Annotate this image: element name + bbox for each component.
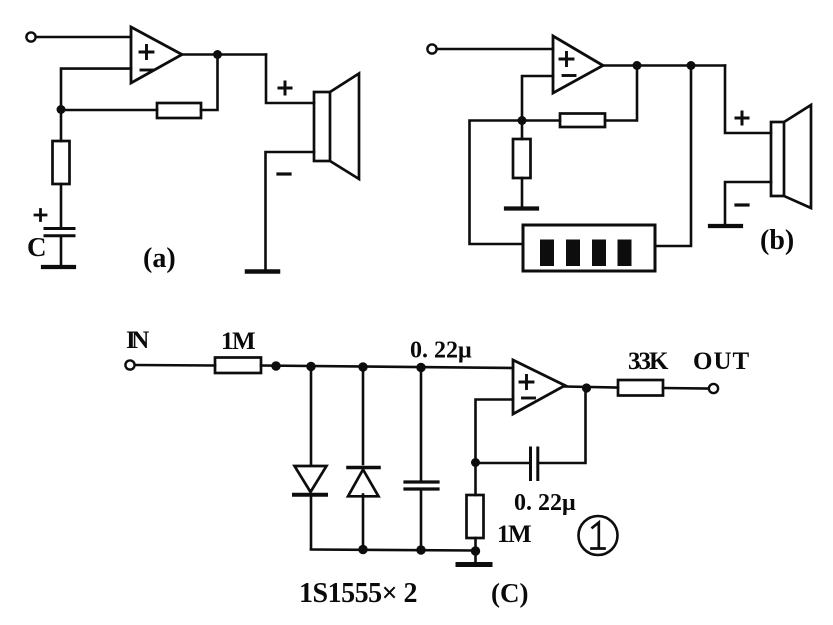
wire [60,184,63,228]
speaker LS2 [771,105,811,208]
wire [663,387,709,390]
op-amp U3 [513,360,565,414]
resistor 1M feedback (c) [467,495,484,538]
label circled 1 [579,516,618,555]
speaker LS1 [314,74,359,180]
node C3 [416,363,425,372]
wire [725,66,771,134]
wire [522,119,560,122]
wire inverting input (c) [476,400,514,463]
wire [437,48,553,51]
terminal OUT [709,384,718,393]
wire output (b) [603,64,725,67]
node C6 [471,458,480,467]
terminal input (a) [26,32,35,41]
node C2 [358,362,367,371]
ground (b speaker) [710,224,741,228]
node C0 [271,361,280,370]
svg-text:1M: 1M [221,328,255,355]
wire [36,36,131,39]
svg-text:(C): (C) [491,578,528,608]
resistor 1M input (c) [215,358,261,374]
svg-text:33K: 33K [628,348,669,375]
resistor 33K [618,380,663,396]
wire [60,109,63,141]
wire inverting input (b) [522,76,553,120]
node C7 [582,383,591,392]
terminal input (b) [427,44,436,53]
wire [135,364,215,367]
node C4 [358,545,367,554]
svg-text:1S1555× 2: 1S1555× 2 [299,578,417,609]
wire [266,152,315,270]
wire [521,178,524,206]
ground (a speaker) [247,269,278,274]
node A2 [213,50,222,59]
wire right loop (b) [655,66,691,247]
node C5 [416,545,425,554]
node A1 [57,105,66,114]
terminal IN (c) [125,360,134,369]
wire [539,388,586,463]
label - speaker (b) [736,203,748,206]
wire output (c) [565,387,618,388]
svg-text:OUT: OUT [693,348,750,375]
node C8 [471,546,480,555]
wire inverting input (a) [61,69,131,109]
capacitor 0.22u feedback [531,448,538,480]
ground (c) [458,562,490,567]
wire [476,462,531,465]
label + speaker (a) [279,82,291,94]
node B2 [633,61,642,70]
op-amp U2 [553,36,603,93]
svg-text:(b): (b) [760,225,794,256]
ground (a capacitor) [43,265,74,269]
wire [474,463,477,496]
label + capacitor (a) [35,210,46,221]
wire [61,109,157,112]
label + speaker (b) [736,112,748,124]
op-amp U1 [131,27,182,83]
resistor R2 (b) [513,139,531,178]
node B3 [687,61,696,70]
svg-text:0. 22μ: 0. 22μ [514,490,576,516]
node B1 [518,116,527,125]
diode D2 [348,367,379,549]
resistor Rf (a) [157,103,201,118]
wire [266,55,314,104]
svg-text:(a): (a) [143,243,176,274]
svg-text:C: C [27,232,47,262]
label - speaker (a) [278,172,290,175]
svg-text:0. 22μ: 0. 22μ [410,338,472,364]
svg-text:1M: 1M [497,521,531,548]
wire [725,182,771,224]
wire [474,538,477,561]
diode D1 [294,367,327,549]
wire output (a) [182,53,266,56]
capacitor 0.22u shunt [405,367,438,549]
wire [605,66,637,121]
wire bottom bus (c) [311,550,475,551]
wire left loop (b) [470,121,524,245]
wire [60,237,63,266]
wire [201,55,218,111]
resistor R1 (a) [53,141,70,184]
battery box BT [523,225,655,271]
ground (b resistor) [506,206,537,210]
resistor Rf (b) [560,114,605,128]
capacitor C (a) [45,229,74,236]
wire [521,120,524,139]
node C1 [306,362,315,371]
wire [261,366,513,369]
